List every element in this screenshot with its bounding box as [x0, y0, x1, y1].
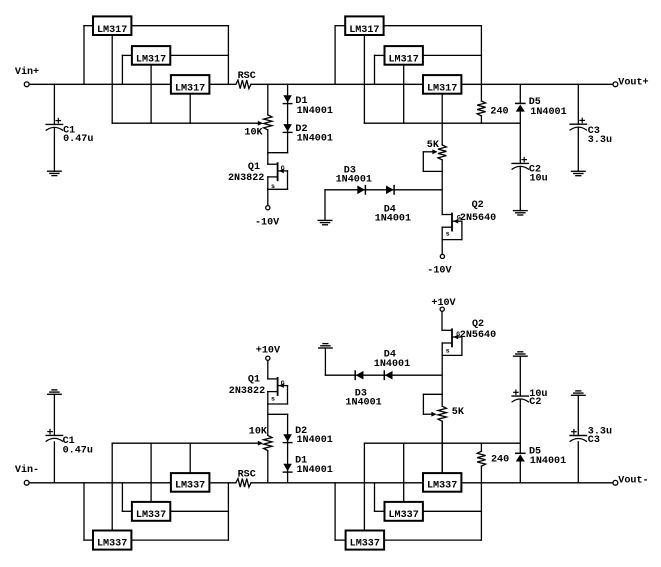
- svg-text:1N4001: 1N4001: [297, 106, 333, 117]
- svg-text:1N4001: 1N4001: [530, 107, 566, 118]
- svg-text:Q2: Q2: [472, 319, 484, 330]
- svg-text:1N4001: 1N4001: [297, 465, 333, 476]
- svg-text:s: s: [271, 396, 275, 403]
- svg-text:LM337: LM337: [136, 510, 166, 521]
- svg-text:G: G: [281, 380, 285, 387]
- svg-text:10K: 10K: [244, 128, 263, 139]
- svg-text:0.47u: 0.47u: [63, 134, 93, 145]
- svg-text:1N4001: 1N4001: [374, 359, 410, 370]
- svg-text:LM317: LM317: [97, 25, 127, 36]
- svg-text:C2: C2: [529, 397, 541, 408]
- svg-text:2N3822: 2N3822: [228, 173, 264, 184]
- svg-text:+10V: +10V: [256, 345, 281, 356]
- svg-text:Vout+: Vout+: [618, 78, 648, 89]
- svg-text:2N3822: 2N3822: [229, 386, 265, 397]
- svg-text:LM337: LM337: [427, 481, 457, 492]
- svg-text:LM337: LM337: [350, 539, 380, 550]
- svg-text:240: 240: [490, 107, 508, 118]
- svg-text:10K: 10K: [249, 427, 268, 438]
- svg-text:C3: C3: [588, 435, 600, 446]
- svg-text:Vin-: Vin-: [15, 464, 39, 476]
- svg-text:1N4001: 1N4001: [345, 398, 381, 409]
- svg-text:-10V: -10V: [427, 265, 452, 276]
- svg-text:+10V: +10V: [431, 298, 456, 309]
- svg-text:Q2: Q2: [472, 200, 484, 211]
- svg-text:1N4001: 1N4001: [297, 134, 333, 145]
- svg-text:RSC: RSC: [238, 71, 256, 82]
- svg-text:1N4001: 1N4001: [375, 214, 411, 225]
- svg-text:2N5640: 2N5640: [460, 213, 496, 224]
- svg-text:s: s: [446, 348, 450, 355]
- svg-text:LM337: LM337: [389, 510, 419, 521]
- svg-text:RSC: RSC: [238, 470, 256, 481]
- svg-text:1N4001: 1N4001: [530, 456, 566, 467]
- svg-text:LM317: LM317: [427, 84, 457, 95]
- svg-text:5K: 5K: [427, 140, 440, 151]
- svg-text:G: G: [281, 165, 285, 172]
- svg-text:LM317: LM317: [349, 25, 379, 36]
- svg-text:1N4001: 1N4001: [297, 435, 333, 446]
- svg-text:Vout-: Vout-: [618, 476, 648, 487]
- svg-text:240: 240: [491, 454, 509, 465]
- svg-text:1N4001: 1N4001: [336, 175, 372, 186]
- svg-text:0.47u: 0.47u: [63, 446, 93, 457]
- svg-text:Q1: Q1: [248, 374, 260, 385]
- svg-text:10u: 10u: [530, 174, 548, 185]
- svg-text:LM337: LM337: [175, 481, 205, 492]
- svg-text:Q1: Q1: [248, 162, 260, 173]
- svg-text:s: s: [271, 183, 275, 190]
- svg-text:3.3u: 3.3u: [588, 135, 612, 146]
- svg-text:2N5640: 2N5640: [460, 330, 496, 341]
- svg-text:LM337: LM337: [97, 539, 127, 550]
- svg-text:LM317: LM317: [136, 55, 166, 66]
- svg-text:LM317: LM317: [389, 55, 419, 66]
- svg-text:s: s: [446, 231, 450, 238]
- svg-text:Vin+: Vin+: [15, 66, 39, 78]
- svg-text:5K: 5K: [452, 407, 465, 418]
- svg-text:-10V: -10V: [255, 218, 280, 229]
- svg-text:LM317: LM317: [175, 84, 205, 95]
